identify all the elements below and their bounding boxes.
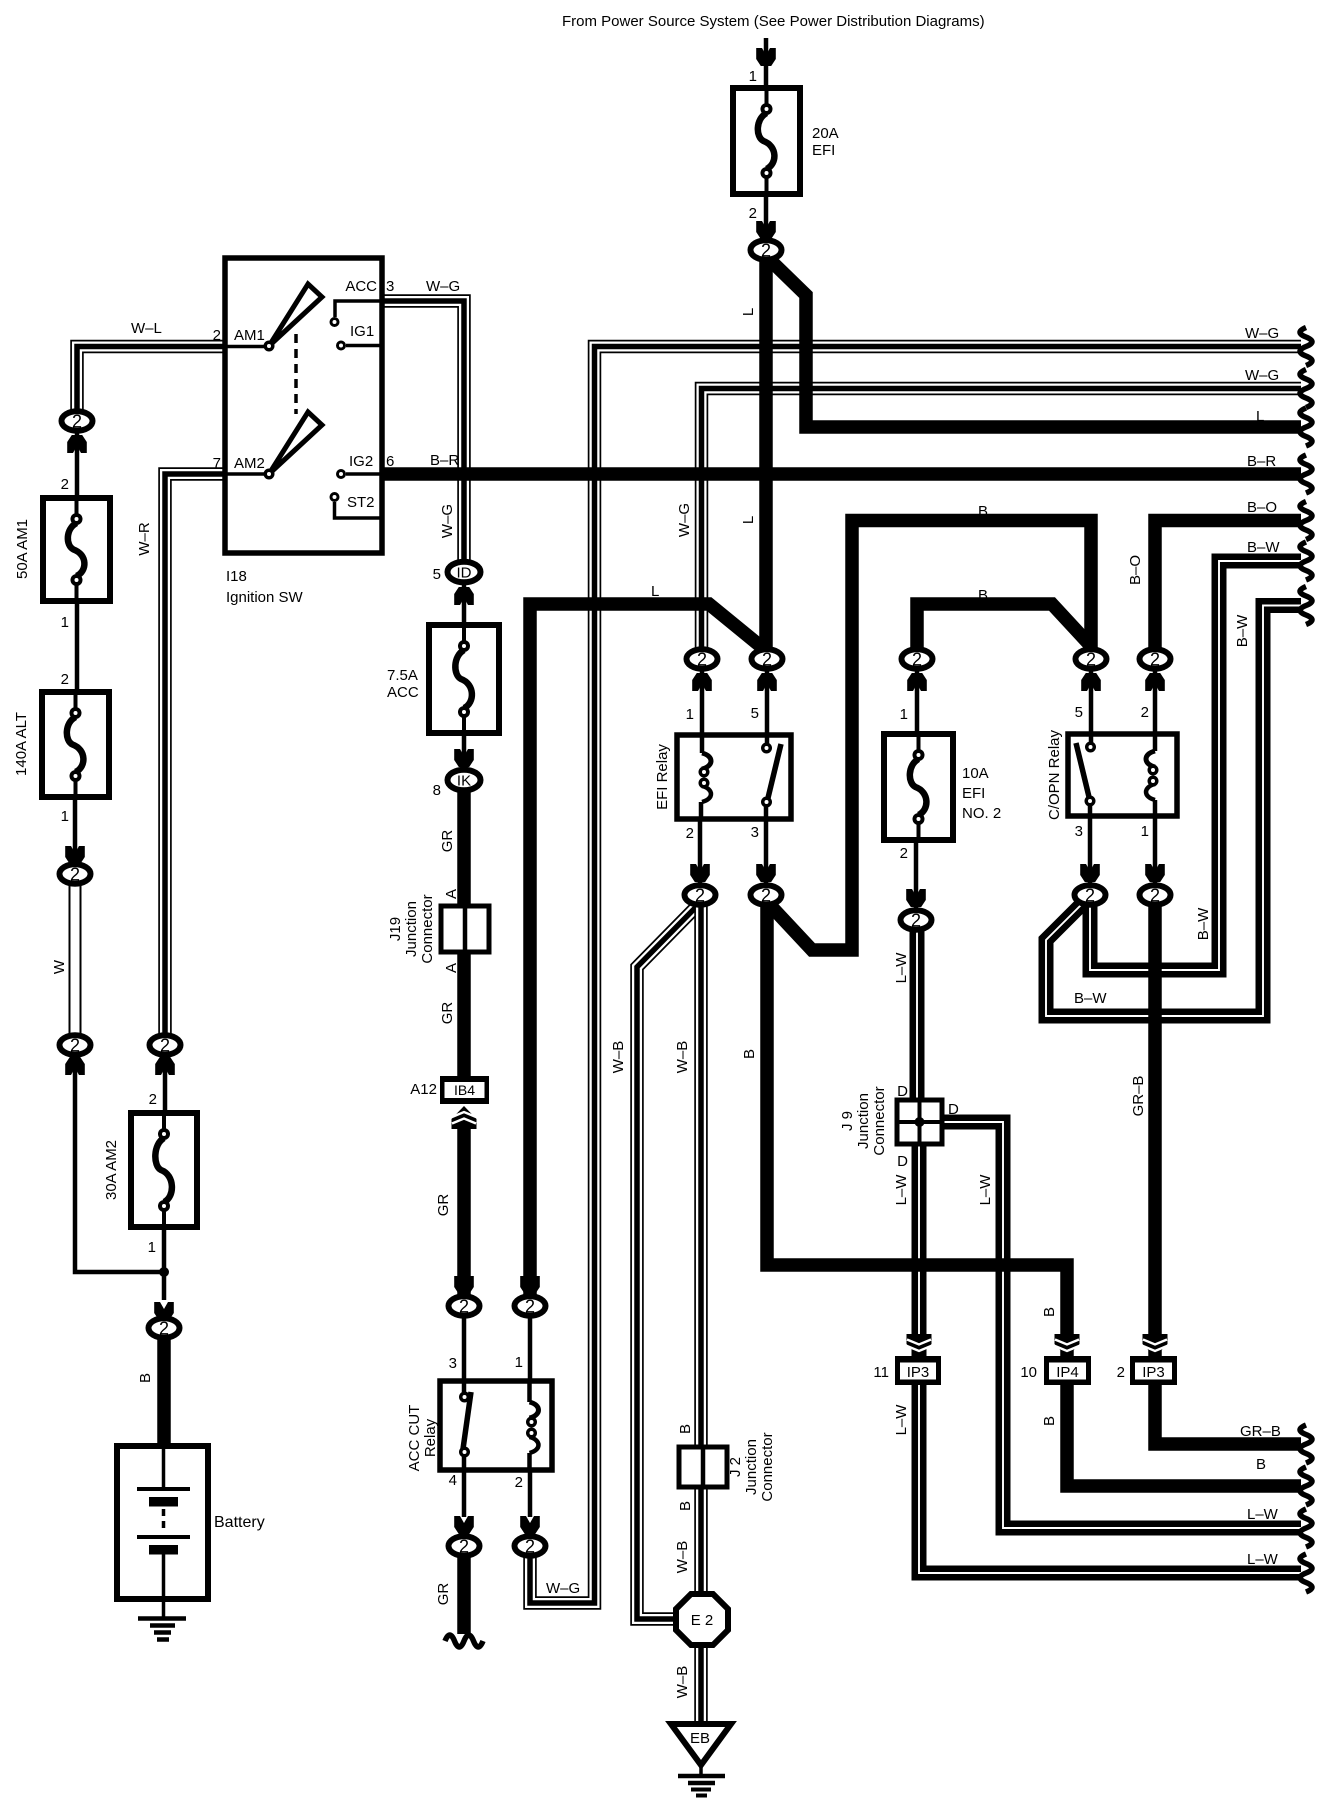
connector IP4 pin10 — [1044, 1356, 1091, 1385]
wire L from 20A EFI fuse to right edge — [768, 258, 1301, 427]
svg-text:NO. 2: NO. 2 — [962, 805, 1001, 822]
wire 20A EFI pin2 to connector — [764, 194, 769, 240]
arrow above connector under 140A ALT — [65, 846, 85, 864]
wire L-W from J9 to IP3 pin11 — [912, 1140, 927, 1358]
svg-text:3: 3 — [1075, 823, 1083, 840]
arrow above EFI pin3 connector — [756, 864, 776, 882]
arrow from power source — [756, 48, 776, 66]
svg-text:2: 2 — [1150, 650, 1160, 670]
svg-text:2: 2 — [1150, 886, 1160, 906]
wire EFI relay pin5 stub — [765, 662, 770, 735]
svg-text:B–W: B–W — [1247, 539, 1280, 556]
break squiggle L-W 2 — [1300, 1554, 1312, 1592]
connector 2 at C/OPN pin2 — [1140, 649, 1171, 669]
svg-text:B: B — [1256, 1456, 1266, 1473]
arrow below EFI pin5 connector — [757, 673, 777, 691]
break squiggle GR-B — [1300, 1425, 1312, 1463]
svg-text:B: B — [1041, 1416, 1058, 1426]
svg-text:2: 2 — [912, 650, 922, 670]
svg-text:W–B: W–B — [674, 1541, 691, 1574]
wire EFI relay pin1 stub — [700, 670, 705, 735]
connector ID — [448, 562, 481, 583]
arrow above ACC CUT pin4 output connector — [454, 1516, 474, 1534]
ignition switch ST2 contact — [330, 492, 381, 518]
wire B-W outer loop C/OPN pin3 to right edge — [1046, 606, 1301, 1017]
connector 2 on W wire — [60, 1035, 91, 1055]
connector IK — [448, 770, 481, 791]
svg-text:W–L: W–L — [131, 320, 162, 337]
svg-text:2: 2 — [459, 1297, 469, 1317]
junction connector J19 — [441, 906, 489, 952]
svg-text:B–R: B–R — [430, 452, 459, 469]
svg-text:B–O: B–O — [1127, 555, 1144, 585]
svg-text:GR–B: GR–B — [1130, 1076, 1147, 1117]
wire L branch to ACC CUT relay pin1 — [530, 604, 764, 1297]
svg-text:B–R: B–R — [1247, 453, 1276, 470]
connector IP3 pin2 — [1130, 1356, 1177, 1385]
svg-text:GR: GR — [439, 830, 456, 853]
wire W-G from ACC CUT relay pin2 loop to right edge — [526, 343, 1301, 1607]
svg-text:L–W: L–W — [1247, 1506, 1279, 1523]
connector 2 at ACC CUT pin1 — [515, 1296, 546, 1316]
svg-text:Ignition SW: Ignition SW — [226, 589, 304, 606]
svg-text:1: 1 — [515, 1354, 523, 1371]
svg-text:GR: GR — [435, 1583, 452, 1606]
svg-text:11: 11 — [873, 1364, 889, 1381]
svg-text:Junction: Junction — [743, 1439, 760, 1495]
svg-text:W–B: W–B — [674, 1041, 691, 1074]
connector 2 at C/OPN pin5 — [1076, 649, 1107, 669]
fuse 10A EFI NO.2 — [884, 734, 953, 840]
svg-text:J 9: J 9 — [839, 1111, 856, 1131]
relay EFI switch — [761, 735, 781, 819]
wire B-R from ignition IG2 pin6 to right edge — [380, 467, 1301, 481]
wire connector to 50A AM1 pin2 — [75, 432, 80, 498]
svg-text:From Power Source System (See: From Power Source System (See Power Dist… — [562, 13, 985, 30]
wire B branch to 10A EFI NO.2 fuse pin1 — [917, 604, 1089, 650]
svg-text:1: 1 — [148, 1239, 156, 1256]
svg-text:B–W: B–W — [1234, 614, 1251, 647]
wire GR pigtail below ACC CUT relay pin4 — [457, 1556, 471, 1634]
svg-text:5: 5 — [433, 566, 441, 583]
svg-text:ACC: ACC — [345, 278, 377, 295]
svg-text:5: 5 — [751, 705, 759, 722]
svg-text:2: 2 — [160, 1036, 170, 1056]
wire ACC CUT relay pin4 stub — [462, 1467, 467, 1517]
arrow below W-R connector — [155, 1057, 175, 1075]
svg-text:L: L — [1256, 408, 1264, 425]
relay ACC CUT coil — [526, 1381, 539, 1470]
svg-text:L–W: L–W — [893, 1174, 910, 1206]
break squiggle B-W 1 — [1300, 542, 1312, 580]
wire from power source into 20A EFI — [764, 38, 769, 88]
arrow above C/OPN pin1 connector — [1145, 864, 1165, 882]
wire 10A EFI NO.2 pin1 stub — [915, 670, 920, 734]
svg-text:IP3: IP3 — [907, 1364, 930, 1381]
fuse 7.5A ACC — [429, 625, 499, 733]
svg-text:5: 5 — [1075, 704, 1083, 721]
relay EFI box — [677, 735, 791, 819]
svg-text:2: 2 — [515, 1474, 523, 1491]
wire W-B from E2 to ground EB — [697, 1641, 705, 1724]
connector 2 below 20A EFI — [751, 240, 782, 260]
svg-text:L: L — [740, 308, 757, 316]
svg-text:D: D — [897, 1153, 908, 1170]
ground symbol below EB — [678, 1765, 725, 1796]
svg-text:Connector: Connector — [419, 894, 436, 963]
connector 2 at EFI relay pin5 — [752, 649, 783, 669]
svg-text:A: A — [443, 889, 460, 899]
double arrow into IP3 pin11 — [907, 1334, 932, 1357]
wire L-W from J9 right to right edge — [940, 1122, 1301, 1528]
svg-text:IP3: IP3 — [1142, 1364, 1165, 1381]
battery box — [117, 1446, 208, 1599]
svg-text:2: 2 — [159, 1319, 169, 1339]
svg-text:IK: IK — [457, 772, 471, 789]
break squiggle L — [1300, 408, 1312, 446]
wire GR from IB4 to ACC CUT relay pin3 — [457, 1124, 471, 1297]
svg-text:GR: GR — [435, 1194, 452, 1217]
svg-text:B: B — [1041, 1307, 1058, 1317]
wire B from EFI relay pin3 to IP4 pin10 — [767, 906, 1067, 1358]
svg-text:B–W: B–W — [1195, 907, 1212, 940]
svg-text:2: 2 — [911, 911, 921, 931]
connector IB4 — [440, 1076, 489, 1104]
wire W-L from AM1 to 50A AM1 — [73, 343, 226, 412]
svg-text:B: B — [677, 1424, 694, 1434]
wire 50A AM1 pin1 to 140A ALT pin2 — [75, 601, 80, 692]
svg-text:6: 6 — [386, 453, 394, 470]
break squiggle B — [1300, 1467, 1312, 1505]
svg-text:2: 2 — [525, 1537, 535, 1557]
svg-text:140A ALT: 140A ALT — [13, 712, 30, 776]
junction connector J2 — [679, 1447, 727, 1487]
svg-text:2: 2 — [686, 825, 694, 842]
svg-text:AM1: AM1 — [234, 327, 265, 344]
connector 2 at 10A fuse pin2 — [901, 910, 932, 930]
svg-text:L–W: L–W — [977, 1174, 994, 1206]
svg-text:7.5A: 7.5A — [387, 667, 418, 684]
svg-text:W: W — [51, 959, 68, 974]
svg-text:2: 2 — [61, 671, 69, 688]
wire ACC CUT relay pin2 stub — [528, 1467, 533, 1517]
fuse 30A AM2 — [131, 1113, 197, 1227]
break squiggle L-W 1 — [1300, 1509, 1312, 1547]
wire GR-B from C/OPN relay pin1 to IP3 pin2 — [1148, 906, 1162, 1358]
svg-text:8: 8 — [433, 782, 441, 799]
wire B-O from right edge to C/OPN relay pin2 — [1155, 521, 1301, 651]
connector 2 at EFI relay pin1 — [687, 649, 718, 669]
svg-text:2: 2 — [459, 1537, 469, 1557]
svg-text:EFI: EFI — [962, 785, 985, 802]
svg-text:3: 3 — [449, 1355, 457, 1372]
break squiggle B-W 2 — [1300, 587, 1312, 625]
connector 2 at C/OPN pin1 — [1140, 885, 1171, 905]
double arrow below IB4 — [452, 1106, 477, 1129]
svg-text:20A: 20A — [812, 125, 839, 142]
svg-text:W–G: W–G — [546, 1580, 580, 1597]
svg-text:1: 1 — [61, 614, 69, 631]
arrow above ACC CUT pin1 connector — [520, 1276, 540, 1294]
svg-text:I18: I18 — [226, 568, 247, 585]
svg-text:ID: ID — [457, 564, 472, 581]
wire connector to ACC CUT relay pin3 — [462, 1317, 467, 1381]
connector 2 at ACC CUT pin3 — [449, 1296, 480, 1316]
svg-text:7: 7 — [213, 455, 221, 472]
arrow below ID — [454, 587, 474, 605]
arrow above EFI pin2 connector — [690, 864, 710, 882]
wire EFI relay pin3 stub — [764, 819, 769, 884]
svg-text:2: 2 — [900, 845, 908, 862]
wire W-G from ignition ACC to fuse 7.5A ACC (node ID) — [380, 297, 468, 562]
svg-text:D: D — [897, 1083, 908, 1100]
ignition switch AM1 lever — [264, 284, 323, 352]
arrow below W-L connector — [67, 435, 87, 453]
svg-text:E 2: E 2 — [691, 1612, 714, 1629]
ignition switch AM2 pin line — [226, 472, 267, 476]
relay EFI coil — [699, 735, 712, 819]
svg-text:Junction: Junction — [855, 1093, 872, 1149]
connector 2 at EFI relay pin2 — [685, 885, 716, 905]
svg-text:Connector: Connector — [759, 1432, 776, 1501]
relay ACC CUT switch — [459, 1381, 471, 1470]
wire L from 20A EFI fuse down to EFI relay pin5 — [759, 256, 773, 650]
svg-text:2: 2 — [1141, 704, 1149, 721]
wire C/OPN relay pin1 stub — [1153, 816, 1158, 884]
fuse 50A AM1 — [43, 498, 110, 601]
svg-text:2: 2 — [749, 205, 757, 222]
ground EB triangle — [671, 1724, 731, 1765]
relay C/OPN box — [1068, 734, 1177, 816]
svg-text:Connector: Connector — [871, 1086, 888, 1155]
wire W-R from AM2 to 30A AM2 — [161, 470, 226, 1036]
wire W-B from J2 to E2 — [697, 1487, 705, 1598]
wire GR from J19 to connector IB4 — [457, 948, 471, 1078]
double arrow into IP3 pin2 — [1143, 1334, 1168, 1357]
wire B from 30A AM2 to battery — [157, 1338, 171, 1446]
break squiggle W-G 2 — [1300, 370, 1312, 408]
svg-text:L–W: L–W — [893, 952, 910, 984]
wire W-B from EFI relay pin2 to J2 — [697, 906, 705, 1447]
svg-text:B: B — [741, 1049, 758, 1059]
svg-text:B–O: B–O — [1247, 499, 1277, 516]
svg-text:J 2: J 2 — [727, 1457, 744, 1477]
ignition switch lever dashed link — [294, 334, 298, 414]
connector 2 under 140A ALT — [60, 864, 91, 884]
svg-text:W–R: W–R — [136, 522, 153, 556]
wire connector to ACC CUT relay pin1 — [528, 1317, 533, 1381]
svg-text:C/OPN Relay: C/OPN Relay — [1046, 729, 1063, 820]
svg-text:A12: A12 — [410, 1081, 437, 1098]
svg-text:W–G: W–G — [426, 278, 460, 295]
svg-text:B: B — [978, 503, 988, 520]
svg-text:2: 2 — [72, 412, 82, 432]
arrow above ACC CUT pin3 connector — [454, 1276, 474, 1294]
arrow above C/OPN pin3 connector — [1080, 864, 1100, 882]
junction dot — [159, 1267, 169, 1277]
svg-text:2: 2 — [61, 476, 69, 493]
svg-text:1: 1 — [749, 68, 757, 85]
svg-text:2: 2 — [1117, 1364, 1125, 1381]
wire L-W from IP3 pin11 to right edge — [919, 1383, 1301, 1573]
svg-text:W–G: W–G — [1245, 367, 1279, 384]
svg-text:B: B — [137, 1373, 154, 1383]
wire node ID to 7.5A ACC fuse — [462, 584, 467, 625]
svg-text:2: 2 — [149, 1091, 157, 1108]
double arrow into IP4 pin10 — [1055, 1334, 1080, 1357]
arrow below C/OPN pin5 connector — [1081, 673, 1101, 691]
svg-text:2: 2 — [70, 865, 80, 885]
connector 2 on W-R wire — [150, 1035, 181, 1055]
svg-text:D: D — [948, 1101, 959, 1118]
svg-text:ACC CUT: ACC CUT — [406, 1405, 423, 1472]
wire 7.5A ACC fuse to node IK — [462, 733, 467, 770]
connector IP3 pin11 — [895, 1356, 941, 1385]
svg-text:W–B: W–B — [674, 1666, 691, 1699]
svg-text:2: 2 — [525, 1297, 535, 1317]
arrow above connector under 30A AM2 — [154, 1302, 174, 1320]
svg-text:2: 2 — [213, 327, 221, 344]
svg-text:2: 2 — [70, 1036, 80, 1056]
svg-text:AM2: AM2 — [234, 455, 265, 472]
ignition switch ACC contact — [330, 301, 381, 327]
wire 140A ALT pin1 to connector — [73, 797, 78, 864]
break squiggle on GR pigtail — [445, 1635, 483, 1647]
connector 2 below ACC CUT pin4 — [449, 1536, 480, 1556]
svg-text:B: B — [677, 1501, 694, 1511]
wire W-G from EFI relay pin1 to right edge — [698, 385, 1301, 650]
svg-text:IB4: IB4 — [454, 1082, 475, 1098]
wire 30A AM2 pin1 to connector — [162, 1227, 167, 1300]
wire W between connectors — [69, 884, 82, 1036]
arrow below EFI pin1 connector — [692, 673, 712, 691]
connector 2 on W-L wire — [62, 411, 93, 431]
wire connector to 30A AM2 pin2 — [163, 1056, 168, 1113]
svg-text:W–B: W–B — [610, 1041, 627, 1074]
ignition switch IG2 contact — [336, 469, 380, 479]
wire GR-B from IP3 pin2 to right edge — [1155, 1383, 1301, 1444]
svg-text:2: 2 — [761, 886, 771, 906]
wire EFI relay pin2 stub — [698, 819, 703, 884]
battery ground — [138, 1599, 186, 1640]
svg-text:EFI: EFI — [812, 142, 835, 159]
svg-text:10: 10 — [1020, 1364, 1037, 1381]
fuse 140A ALT — [42, 692, 109, 797]
svg-text:2: 2 — [1086, 650, 1096, 670]
svg-text:EB: EB — [690, 1730, 710, 1747]
svg-text:1: 1 — [900, 706, 908, 723]
arrow below C/OPN pin2 connector — [1145, 673, 1165, 691]
svg-text:IG2: IG2 — [349, 453, 373, 470]
arrow into connector below 20A EFI — [756, 221, 776, 239]
wire B from EFI relay pin3 up to C/OPN relay pin5 — [769, 521, 1091, 951]
svg-text:2: 2 — [695, 886, 705, 906]
svg-text:1: 1 — [686, 706, 694, 723]
arrow above 10A fuse pin2 connector — [906, 889, 926, 907]
wire C/OPN relay pin2 stub — [1153, 670, 1158, 734]
relay C/OPN switch — [1076, 734, 1096, 816]
wire L-W from 10A EFI NO.2 to J9 — [910, 930, 925, 1104]
svg-text:B–W: B–W — [1074, 990, 1107, 1007]
junction connector J9 — [897, 1100, 942, 1144]
connector 2 at C/OPN pin3 — [1075, 885, 1106, 905]
ignition switch IG1 contact — [336, 341, 380, 351]
arrow below W connector — [65, 1057, 85, 1075]
fuse 20A EFI — [733, 88, 800, 194]
svg-text:L–W: L–W — [893, 1404, 910, 1436]
wire C/OPN relay pin5 stub — [1089, 670, 1094, 734]
svg-text:L–W: L–W — [1247, 1551, 1279, 1568]
connector 2 at EFI relay pin3 — [751, 885, 782, 905]
relay ACC CUT box — [440, 1381, 552, 1470]
svg-text:L: L — [740, 516, 757, 524]
svg-text:ST2: ST2 — [347, 494, 375, 511]
svg-text:2: 2 — [697, 650, 707, 670]
battery cells — [137, 1449, 190, 1596]
svg-text:ACC: ACC — [387, 684, 419, 701]
svg-text:GR–B: GR–B — [1240, 1423, 1281, 1440]
arrow above ACC CUT pin2 output connector — [520, 1516, 540, 1534]
arrow below 10A fuse pin1 connector — [907, 673, 927, 691]
svg-text:L: L — [651, 583, 659, 600]
svg-text:2: 2 — [761, 241, 771, 261]
svg-text:A: A — [443, 963, 460, 973]
svg-text:B: B — [978, 587, 988, 604]
wire B-W inner loop C/OPN pin3 to right edge — [1090, 561, 1301, 970]
svg-text:2: 2 — [1085, 886, 1095, 906]
break squiggle B-R — [1300, 455, 1312, 493]
svg-text:J19: J19 — [387, 917, 404, 941]
wire W branch to junction — [75, 1056, 161, 1272]
svg-text:30A AM2: 30A AM2 — [103, 1140, 120, 1200]
wire GR from node IK to J19 — [457, 790, 471, 910]
svg-text:Relay: Relay — [422, 1418, 439, 1457]
connector 2 above battery — [149, 1318, 180, 1338]
connector 2 at 10A fuse pin1 — [902, 649, 933, 669]
svg-text:EFI Relay: EFI Relay — [654, 744, 671, 810]
wire C/OPN relay pin3 stub — [1088, 816, 1093, 884]
svg-text:W–G: W–G — [676, 503, 693, 537]
break squiggle W-G 1 — [1300, 328, 1312, 366]
relay C/OPN coil — [1146, 734, 1159, 816]
ignition switch I18 box — [225, 258, 382, 553]
svg-text:3: 3 — [386, 278, 394, 295]
svg-text:IG1: IG1 — [350, 323, 374, 340]
break squiggle B-O — [1300, 502, 1312, 540]
svg-text:IP4: IP4 — [1056, 1364, 1079, 1381]
svg-text:2: 2 — [762, 650, 772, 670]
ignition switch AM1 pin line — [226, 345, 267, 349]
svg-text:W–G: W–G — [439, 504, 456, 538]
wire 10A EFI NO.2 pin2 stub — [914, 840, 919, 909]
svg-text:3: 3 — [751, 824, 759, 841]
svg-text:W–G: W–G — [1245, 325, 1279, 342]
svg-text:Battery: Battery — [214, 1514, 265, 1531]
ignition switch AM2 lever — [264, 412, 323, 480]
svg-text:4: 4 — [449, 1472, 457, 1489]
svg-text:GR: GR — [439, 1002, 456, 1025]
svg-text:1: 1 — [1141, 823, 1149, 840]
arrow above IK — [454, 749, 474, 767]
svg-text:10A: 10A — [962, 765, 989, 782]
wire W-B from EFI relay pin2 to E2 (left branch) — [633, 903, 700, 1623]
wire B from IP4 pin10 to right edge — [1067, 1383, 1301, 1486]
svg-text:Junction: Junction — [403, 901, 420, 957]
connector 2 below ACC CUT pin2 — [515, 1536, 546, 1556]
svg-text:50A AM1: 50A AM1 — [14, 519, 31, 579]
node E2 — [676, 1594, 728, 1645]
svg-text:1: 1 — [61, 808, 69, 825]
